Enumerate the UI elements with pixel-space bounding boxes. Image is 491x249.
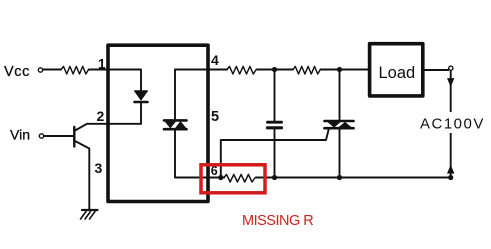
capacitor C1 top plate <box>268 121 282 124</box>
svg-text:2: 2 <box>97 108 105 124</box>
junction node B (triac tap) <box>337 67 342 72</box>
AC arrow (bottom, pointing up) <box>448 166 454 173</box>
capacitor C1 bottom lead <box>274 130 276 178</box>
highlight box around missing resistor <box>201 165 265 193</box>
wire R4 to AC bottom terminal <box>256 177 451 179</box>
junction C1 to bottom rail <box>272 175 277 180</box>
wire pin 4 to R2 <box>208 69 227 71</box>
svg-text:4: 4 <box>211 52 219 68</box>
capacitor C1 bottom plate <box>268 126 282 129</box>
resistor R4 (the missing R) <box>224 174 255 182</box>
junction AC bottom terminal <box>448 175 453 180</box>
triac T1 left triangle <box>328 122 340 127</box>
triac T1 top bar <box>325 120 354 123</box>
AC source rail <box>450 71 452 178</box>
resistor R1 <box>61 66 88 74</box>
resistor R2 <box>227 66 256 74</box>
transistor Q1 collector <box>75 124 141 131</box>
photo-triac U1b left triangle <box>165 122 175 128</box>
svg-text:Vcc: Vcc <box>4 64 30 80</box>
resistor R3 <box>293 66 320 74</box>
svg-text:AC100V: AC100V <box>420 116 485 133</box>
wire T1 MT1 to bottom rail <box>339 129 341 177</box>
wire R1 to pin 1 <box>89 70 141 92</box>
photo-triac U1b bottom bar <box>164 128 187 131</box>
wire photo-triac to pin 6 <box>175 130 224 177</box>
node Vcc terminal <box>38 68 42 72</box>
LED D1 triangle <box>135 91 148 100</box>
node AC top terminal <box>449 66 453 70</box>
wire LED cathode to pin 2 <box>140 103 142 124</box>
optocoupler U1 body <box>108 45 208 201</box>
ground bar <box>82 209 98 211</box>
wire pin 4 internal lead <box>175 70 208 120</box>
transistor Q1 base bar <box>73 127 75 147</box>
ground hatch strokes <box>81 212 96 220</box>
wire R2 to node A <box>257 69 293 71</box>
node Vin terminal <box>39 134 43 138</box>
gate wire from pin 6 node to T1 gate <box>221 129 329 177</box>
junction T1 to bottom rail <box>337 175 342 180</box>
wire R3 to Load <box>321 69 369 71</box>
LED D1 cathode bar <box>135 101 148 104</box>
wire Load to AC top terminal <box>425 69 449 71</box>
AC100V label background <box>420 112 484 133</box>
capacitor C1 top lead <box>274 70 276 121</box>
AC arrow (top, pointing down) <box>448 79 454 87</box>
photo-triac U1b right triangle <box>176 122 186 128</box>
photo-triac U1b top bar <box>164 119 187 122</box>
wire Vin terminal to Q1 base <box>44 135 73 137</box>
triac T1 right triangle <box>339 122 351 127</box>
transistor Q1 emitter <box>75 141 89 209</box>
triac T1 bottom bar <box>325 127 354 130</box>
junction node A (cap tap) <box>272 67 277 72</box>
svg-text:3: 3 <box>95 160 103 176</box>
Load box <box>370 44 423 96</box>
wire triac T1 MT2 lead <box>339 70 341 120</box>
svg-text:5: 5 <box>211 109 219 125</box>
svg-text:MISSING R: MISSING R <box>242 213 313 229</box>
wire Vcc terminal to R1 <box>43 69 61 71</box>
svg-text:1: 1 <box>98 57 106 72</box>
svg-text:Vin: Vin <box>10 127 30 143</box>
junction pin 6 / gate riser <box>218 175 223 180</box>
svg-text:Load: Load <box>379 64 416 82</box>
